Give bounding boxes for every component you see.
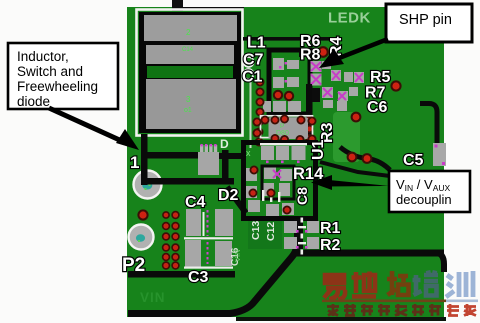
- capacitor C5 pad: [433, 143, 446, 166]
- arrow from VIN VAUX callout: [311, 175, 389, 190]
- silkscreen rotated white refs C13 C12: [230, 221, 277, 266]
- via column left of cluster: [255, 78, 263, 145]
- copper pour light region right of R3: [333, 112, 360, 162]
- wire: vertical trace at x308: [306, 84, 312, 142]
- annotation labels white with black outline: [242, 33, 424, 254]
- wire: bend trace with two vias: [340, 147, 390, 170]
- wire: right vertical of loop: [222, 150, 229, 184]
- U1 vias: [249, 166, 290, 213]
- diode D pin dots: [200, 144, 216, 146]
- svg-text:P: P: [280, 123, 284, 130]
- silkscreen lines around C4/C3: [184, 212, 233, 269]
- watermark big char 4 (pei): [413, 271, 439, 296]
- svg-text:C4: C4: [185, 194, 206, 211]
- svg-text:R2: R2: [320, 237, 341, 254]
- watermark small chars line: [327, 304, 441, 316]
- wire: big curved trace bottom: [128, 246, 297, 314]
- R1 R2 white silkscreen marks: [298, 218, 306, 255]
- wire: horizontal trace out of P1 center: [145, 178, 234, 185]
- thin top trace to R6: [243, 37, 338, 41]
- svg-text:o1: o1: [184, 107, 192, 114]
- wire: right end bend down: [438, 253, 444, 272]
- arrow from inductor callout: [49, 108, 139, 150]
- diode D pins: [200, 145, 217, 152]
- U1 magenta X: [273, 170, 281, 178]
- svg-text:C13: C13: [250, 221, 262, 240]
- tiny green pad numbers: [182, 28, 194, 114]
- svg-text:C6: C6: [367, 99, 388, 116]
- wire: trace A bottom left: [128, 271, 235, 278]
- svg-text:2: 2: [186, 28, 191, 37]
- inductor module black body: [139, 12, 241, 133]
- svg-text:R1: R1: [320, 220, 341, 237]
- svg-text:D: D: [220, 137, 229, 151]
- watermark big char 1 (yi): [324, 275, 346, 299]
- wire: D2 diagonal to U1 corner: [227, 187, 246, 213]
- U1 top pad magenta dots: [266, 161, 300, 164]
- callout: SHP pin: [386, 4, 472, 42]
- wire: trace to callout area: [320, 162, 390, 176]
- wire: long horizontal trace to right edge: [294, 250, 444, 257]
- svg-text:C7: C7: [243, 52, 264, 69]
- inductor green strip: [147, 66, 233, 78]
- pad P2 circle: [129, 225, 154, 250]
- R1 R2 magenta dots: [296, 230, 308, 249]
- svg-text:decouplin: decouplin: [396, 192, 452, 207]
- svg-text:R5: R5: [370, 69, 391, 86]
- capacitor C3 pads: [185, 240, 201, 267]
- silkscreen circles right of module: [244, 57, 254, 79]
- U1 middle pads: [246, 167, 294, 216]
- PCB board ground plane: [127, 7, 444, 321]
- C5 magenta marks: [435, 145, 446, 166]
- via near P1: [138, 210, 147, 219]
- watermark underline: [322, 300, 446, 303]
- U1 white pin ticks: [262, 190, 280, 202]
- resistor R2 pads: [284, 237, 297, 249]
- svg-text:U1: U1: [310, 139, 327, 160]
- U1 top silkscreen white line: [260, 143, 307, 145]
- pads inside cluster box: [263, 58, 301, 112]
- dark notch at top edge: [172, 0, 183, 11]
- svg-text:L1: L1: [247, 35, 266, 52]
- via right of R5: [391, 81, 400, 90]
- svg-text:Inductor,: Inductor,: [17, 49, 69, 64]
- wire: stub trace to via near R8: [299, 52, 320, 58]
- wire: trace down from U1: [294, 219, 303, 249]
- magenta centerlines C4 C3: [207, 210, 209, 264]
- wire: top horizontal trace to D: [146, 152, 200, 159]
- svg-text:LEDK: LEDK: [328, 10, 371, 27]
- svg-text:Freewheeling: Freewheeling: [17, 79, 98, 94]
- pad P1 circle: [134, 171, 162, 199]
- arrow from SHP callout: [319, 39, 388, 68]
- IC U1 outline box: [244, 143, 316, 219]
- board top edge dark line: [172, 7, 244, 11]
- inductor pad 1 (big bottom): [146, 79, 236, 129]
- inductor L2 winding component above U1: [261, 116, 313, 139]
- resistor R1 pads: [284, 221, 297, 233]
- svg-text:C12: C12: [265, 222, 277, 241]
- vias on bend: [348, 153, 357, 162]
- diode D body: [198, 152, 219, 175]
- silkscreen vertical line x250: [250, 82, 252, 148]
- svg-text:VIN: VIN: [140, 290, 166, 305]
- via below C6: [352, 113, 361, 122]
- wire: vertical trace into P1 center: [141, 160, 148, 185]
- svg-text:D2: D2: [218, 187, 239, 204]
- vias around L2 winding: [253, 115, 315, 143]
- wire: stub D to U1 box: [219, 153, 245, 159]
- svg-text:x: x: [246, 148, 251, 158]
- wire: vertical trace from module to P1: [141, 134, 148, 185]
- U1 top pads: [261, 146, 306, 160]
- svg-text:C14: C14: [182, 47, 194, 53]
- capacitor C4 pads: [186, 209, 201, 236]
- vias inside cluster: [274, 91, 282, 99]
- callout: VIN VAUX decoupling: [389, 171, 470, 212]
- inductor pad middle: [146, 45, 234, 64]
- U1 inner silkscreen box: [262, 166, 294, 199]
- vias on x308 trace: [306, 117, 313, 142]
- svg-text:1: 1: [130, 153, 139, 172]
- magenta dots in cluster: [279, 62, 287, 83]
- inductor module L1: white silkscreen outline: [137, 10, 243, 136]
- svg-text:C3: C3: [188, 269, 209, 286]
- wire: board bottom edge line right: [236, 317, 446, 321]
- pad row SHP cluster: [322, 61, 364, 111]
- svg-text:C1: C1: [242, 69, 263, 86]
- watermark big char 2 (di): [352, 272, 377, 297]
- watermark big char 5 (xun): [446, 271, 473, 297]
- callout: Inductor Switch Freewheeling diode: [8, 43, 118, 109]
- rotated labels: [294, 36, 345, 205]
- wire: right side trace to C5: [420, 104, 437, 147]
- copper shading under U1: [248, 219, 282, 249]
- big via near R8: [318, 47, 328, 57]
- watermark big char 3 (tuo): [387, 271, 409, 295]
- svg-text:VIN: VIN: [233, 249, 242, 262]
- X pads right of cluster: [311, 61, 322, 86]
- component cluster box C7/C1 area: [269, 50, 310, 114]
- magenta X marks on cluster pads: [323, 71, 363, 100]
- svg-text:Switch and: Switch and: [17, 64, 83, 79]
- svg-text:R8: R8: [300, 47, 321, 64]
- svg-text:C5: C5: [403, 152, 424, 169]
- wire: bottom horizontal trace P1 to node: [144, 178, 234, 185]
- svg-text:SHP pin: SHP pin: [399, 12, 452, 28]
- board bottom-left white cutout: [0, 317, 236, 323]
- black blob pad: [308, 88, 320, 102]
- via grid left of C4/C3: [163, 212, 179, 269]
- svg-text:diode: diode: [17, 94, 50, 109]
- svg-text:3: 3: [186, 95, 191, 104]
- inductor pad 2 (top): [144, 15, 237, 41]
- svg-text:C8: C8: [294, 187, 310, 205]
